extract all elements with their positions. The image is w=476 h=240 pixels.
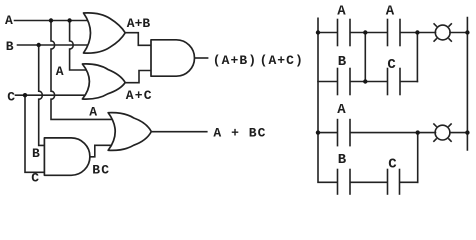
svg-text:A: A: [337, 4, 346, 20]
svg-text:A: A: [337, 102, 346, 118]
svg-text:B: B: [6, 39, 14, 54]
svg-text:(A+C): (A+C): [260, 53, 304, 68]
svg-text:C: C: [7, 90, 15, 105]
svg-text:A: A: [89, 105, 97, 120]
svg-text:A + BC: A + BC: [213, 126, 266, 141]
svg-text:A+C: A+C: [126, 88, 153, 103]
svg-text:C: C: [31, 170, 39, 185]
svg-text:A+B: A+B: [127, 16, 151, 31]
svg-text:A: A: [56, 64, 64, 79]
svg-text:C: C: [387, 57, 396, 73]
svg-text:A: A: [386, 4, 395, 20]
svg-text:C: C: [388, 157, 397, 173]
svg-text:B: B: [338, 152, 347, 168]
svg-text:B: B: [32, 146, 40, 161]
svg-text:B: B: [338, 54, 347, 70]
svg-text:A: A: [5, 13, 13, 28]
svg-text:(A+B): (A+B): [213, 53, 257, 68]
svg-text:BC: BC: [92, 162, 110, 177]
